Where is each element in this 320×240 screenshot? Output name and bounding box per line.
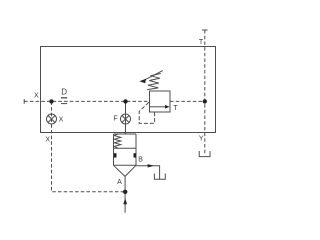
plugged port T crossbar — [202, 29, 208, 31]
cartridge valve poppet — [114, 165, 137, 176]
relief valve adjust arrow shaft — [145, 71, 163, 80]
svg-text:X: X — [59, 117, 64, 124]
cartridge valve spring — [114, 134, 120, 148]
port A line — [124, 176, 126, 212]
node T line — [203, 99, 207, 103]
port B line with tank — [136, 166, 160, 179]
relief valve flow arrow to T — [150, 106, 165, 108]
svg-text:X: X — [45, 137, 50, 144]
pilot relief valve U1 body — [150, 91, 171, 112]
svg-text:B: B — [138, 157, 143, 164]
F branch line (solid) — [125, 101, 127, 134]
orifice X (circle with cross) — [47, 114, 57, 124]
arrowhead on B line — [148, 164, 154, 167]
tank symbol Y — [199, 151, 210, 157]
svg-text:D: D — [61, 88, 67, 97]
relief adjust arrowhead — [139, 79, 146, 84]
port X line end tick — [23, 99, 25, 104]
seat square right — [134, 153, 137, 157]
damping nozzle D (two bars) — [61, 97, 67, 99]
svg-text:T: T — [173, 105, 178, 112]
relief valve spring — [147, 74, 161, 90]
orifice F (circle with cross) — [121, 114, 131, 124]
cartridge valve pilot area line — [114, 147, 137, 149]
T/Y vertical pilot line (dashed) — [204, 30, 206, 155]
seat square left — [114, 153, 117, 157]
pilot line segment relief valve to T node (dashed) — [170, 100, 205, 102]
X branch pilot line (dashed vertical + horizontal to node A) — [52, 101, 126, 191]
node X branch — [49, 99, 53, 103]
arrowhead on A line (up) — [123, 198, 127, 204]
port X pilot line (dashed, left segment) — [24, 100, 149, 102]
logic cartridge valve V1 body — [114, 134, 137, 165]
svg-text:Y: Y — [199, 136, 204, 143]
svg-text:X: X — [34, 93, 39, 100]
svg-text:T: T — [199, 39, 204, 46]
relief valve arrowhead — [165, 105, 170, 109]
svg-text:F: F — [113, 116, 117, 123]
node F branch — [123, 99, 127, 103]
relief valve pilot loop (dashed) — [139, 102, 154, 123]
tank symbol at B — [154, 174, 165, 180]
node A — [123, 190, 127, 194]
enclosure cover plate outline — [41, 47, 216, 133]
svg-text:A: A — [117, 179, 122, 186]
